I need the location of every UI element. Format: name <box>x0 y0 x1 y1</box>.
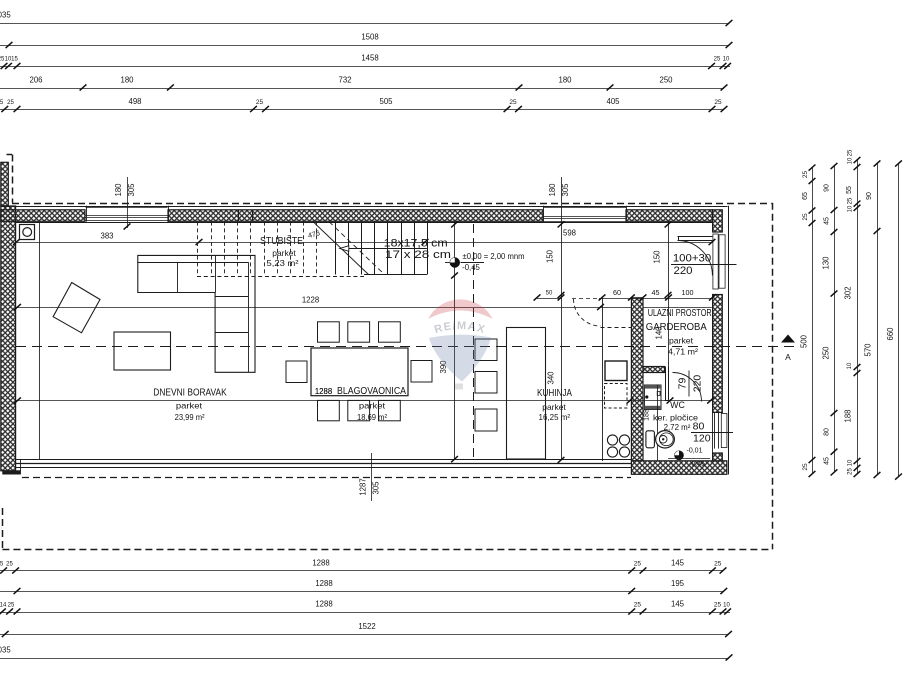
svg-text:15: 15 <box>11 57 18 63</box>
svg-text:250: 250 <box>659 75 673 84</box>
armchair rotated square <box>53 283 100 333</box>
dining chair bottom 3 <box>379 400 401 420</box>
dashed roof outline top <box>12 203 772 205</box>
svg-text:10: 10 <box>847 459 853 466</box>
watermark basket <box>455 384 463 390</box>
cooktop burner 2 <box>619 435 629 445</box>
svg-text:25: 25 <box>802 171 809 179</box>
right dimension chain 2: 90 45 130 250 80 45 <box>834 166 836 472</box>
staircase break line dashed <box>329 222 385 275</box>
right dimension chain 5: overall 660 <box>898 164 900 477</box>
svg-text:ker. pločice: ker. pločice <box>653 412 698 422</box>
svg-text:305: 305 <box>127 183 136 197</box>
sofa back band top <box>138 262 249 264</box>
svg-text:195: 195 <box>671 579 685 588</box>
kitchen island <box>507 328 546 460</box>
svg-text:parket: parket <box>359 402 386 411</box>
dining chair left <box>286 361 307 383</box>
bar stool 2 <box>475 372 497 394</box>
right dimension chain 3: 25/10 55 25/10 302 10 188 10/25 <box>857 160 859 474</box>
svg-text:405: 405 <box>606 97 620 106</box>
svg-text:90: 90 <box>866 192 873 200</box>
svg-text:4,71 m²: 4,71 m² <box>668 347 698 357</box>
window W1 in top wall <box>86 207 168 209</box>
bottom dimension chain: 1522 <box>0 634 729 636</box>
top dimension chain: 5 25 498 25 505 25 405 25 <box>0 109 724 111</box>
svg-text:206: 206 <box>29 75 42 84</box>
WC side line <box>657 385 659 461</box>
dashed cabinet line <box>601 327 632 329</box>
dashed kitchen reference line <box>473 224 475 460</box>
svg-text:-0,01: -0,01 <box>687 448 703 455</box>
staircase lower flight treads <box>335 222 337 275</box>
left exterior wall <box>1 206 16 471</box>
svg-text:45: 45 <box>823 217 830 225</box>
svg-text:10: 10 <box>723 602 730 608</box>
svg-text:2,72 m²: 2,72 m² <box>664 423 691 432</box>
right wall interior face upper segment <box>712 222 714 232</box>
dashed roof outline top-left horizontal stub <box>7 154 13 156</box>
right exterior wall outer face line <box>728 206 730 475</box>
svg-text:17 x 28 cm: 17 x 28 cm <box>385 249 451 261</box>
svg-text:500: 500 <box>799 334 808 348</box>
svg-text:25: 25 <box>802 463 809 471</box>
svg-text:ULAZNI PROSTOR: ULAZNI PROSTOR <box>648 308 712 319</box>
staircase break line solid <box>313 222 369 275</box>
svg-text:1288: 1288 <box>312 558 329 567</box>
svg-text:50: 50 <box>546 290 553 296</box>
left wall bottom cap <box>2 470 20 474</box>
entry door sidelight glazing in right wall <box>713 234 718 289</box>
entry west line 150/140 <box>668 222 670 367</box>
svg-text:150: 150 <box>546 249 555 263</box>
interior dim line 1228 / closet front <box>16 307 631 309</box>
window dim 180/305 rotated, top-left <box>127 177 129 228</box>
cooktop burner 4 <box>619 447 629 457</box>
dashed centre reference line <box>16 346 800 348</box>
WC window in right wall <box>714 412 716 448</box>
svg-text:10: 10 <box>723 57 730 63</box>
entry door swing arc <box>678 241 713 276</box>
svg-text:10: 10 <box>847 205 853 212</box>
top exterior wall hatch segment 3 <box>626 210 712 222</box>
bottom dimension chain: 14/25 1288 25 145 25/10 <box>0 612 730 614</box>
dashed roof outline right <box>772 203 774 550</box>
door dim 79/220 rotated <box>677 371 704 397</box>
gallery edge line left <box>39 222 41 460</box>
right dimension chain 1: 25 65 25 500 25 <box>812 168 814 474</box>
top dimension chain: overall 2035 <box>0 23 729 25</box>
svg-text:1288: 1288 <box>315 579 332 588</box>
interior dim line 50/60/45/100 <box>537 298 561 300</box>
svg-text:60: 60 <box>613 288 621 297</box>
svg-text:150: 150 <box>653 250 662 264</box>
svg-text:188: 188 <box>644 409 651 421</box>
svg-text:25: 25 <box>509 99 517 106</box>
svg-text:598: 598 <box>563 229 576 238</box>
top dimension chain: 1508 <box>0 45 729 47</box>
level marker WC <box>675 451 684 460</box>
svg-text:25: 25 <box>714 57 721 63</box>
svg-text:660: 660 <box>886 327 895 341</box>
svg-text:18x17,5 cm: 18x17,5 cm <box>384 238 448 250</box>
interior dim line 1288 (long room line) <box>16 400 712 402</box>
top exterior wall hatch segment 1 <box>1 210 85 222</box>
dining chair top 1 <box>318 322 340 342</box>
bottom dimension chain: 1288 195 <box>0 591 724 593</box>
svg-text:1287: 1287 <box>359 478 368 495</box>
svg-text:80: 80 <box>823 428 830 436</box>
svg-text:10: 10 <box>847 362 853 369</box>
WC door leaf <box>665 367 667 401</box>
svg-text:220: 220 <box>673 265 692 277</box>
svg-text:180: 180 <box>548 183 557 197</box>
staircase dashed bottom edge <box>197 276 364 278</box>
svg-text:570: 570 <box>863 343 872 357</box>
svg-text:305: 305 <box>372 481 381 495</box>
sofa back band right <box>248 262 250 372</box>
svg-text:parket: parket <box>176 402 203 411</box>
svg-text:25: 25 <box>6 561 13 567</box>
column box with circle (chimney) <box>20 225 35 240</box>
dashed ground line under south glazing <box>22 477 631 479</box>
svg-text:25: 25 <box>802 213 809 221</box>
bottom dimension chain: 5 25 1288 25 145 25 <box>0 570 723 572</box>
glass band west jamb <box>20 459 22 474</box>
svg-text:WC: WC <box>670 400 685 410</box>
dining chair right <box>411 361 432 383</box>
sofa seat seam 2 <box>215 255 217 292</box>
svg-text:1288: 1288 <box>315 599 332 608</box>
entry/WC partition wall stub <box>643 367 665 373</box>
svg-text:25: 25 <box>8 602 15 608</box>
vertical line with window dim 180/305 and 150/340 at kitchen <box>561 177 563 460</box>
svg-text:GARDEROBA: GARDEROBA <box>646 322 707 333</box>
staircase upper flight (dashed) <box>197 222 199 276</box>
svg-text:45: 45 <box>823 457 830 465</box>
svg-text:180: 180 <box>120 75 134 84</box>
washing machine <box>644 385 661 410</box>
svg-text:25: 25 <box>847 468 853 475</box>
interior dim line 383/476/598 <box>16 242 712 244</box>
svg-text:302: 302 <box>843 286 852 299</box>
svg-text:25: 25 <box>847 149 853 156</box>
dashed roof outline bottom-left vertical <box>2 508 4 549</box>
kitchen counter west edge <box>602 298 604 462</box>
top dimension chain: 206 180 732 180 250 <box>0 88 724 90</box>
svg-text:250: 250 <box>821 346 830 360</box>
sofa corner seam <box>215 296 248 298</box>
svg-text:505: 505 <box>379 97 393 106</box>
svg-text:180: 180 <box>558 75 572 84</box>
svg-text:25: 25 <box>714 560 722 567</box>
svg-text:±0,00 = 2,00 mnm: ±0,00 = 2,00 mnm <box>463 252 525 261</box>
svg-text:90: 90 <box>823 184 830 192</box>
level marker main <box>450 258 460 268</box>
watermark balloon red top <box>428 299 493 319</box>
toilet tank <box>646 431 655 448</box>
sofa seat seam 1 <box>177 262 179 292</box>
right dimension chain 4: 90 570 <box>877 164 879 476</box>
dining chair top 3 <box>379 322 401 342</box>
svg-text:-0,45: -0,45 <box>689 461 705 468</box>
svg-text:14: 14 <box>0 602 7 608</box>
top exterior wall outer face line <box>1 206 728 208</box>
kitchen/entry partition wall <box>631 298 643 461</box>
rotated dim 1287/305 at bottom <box>371 453 373 501</box>
kitchen sink <box>605 361 627 381</box>
toilet bowl <box>656 431 675 448</box>
svg-text:-0,45: -0,45 <box>462 263 480 272</box>
top dimension chain: 25/10/15 1458 25/10 <box>0 66 730 68</box>
svg-text:1522: 1522 <box>358 622 375 631</box>
svg-text:1508: 1508 <box>361 33 378 42</box>
bar stool 1 <box>475 339 497 361</box>
dishwasher dashed <box>605 384 628 409</box>
svg-text:25: 25 <box>634 560 642 567</box>
south glass facade lines <box>16 459 631 461</box>
stair direction line with open arrow <box>349 248 427 250</box>
bottom dimension chain: overall 2035 <box>0 658 729 660</box>
left wall stub above plan <box>1 162 9 206</box>
dining chair bottom 2 <box>348 400 370 420</box>
svg-text:55: 55 <box>846 186 853 194</box>
svg-text:DNEVNI BORAVAK: DNEVNI BORAVAK <box>153 388 227 399</box>
svg-text:10: 10 <box>847 157 853 164</box>
svg-text:100: 100 <box>682 288 694 297</box>
svg-text:498: 498 <box>128 97 141 106</box>
watermark balloon blue bottom <box>429 335 491 382</box>
svg-text:A: A <box>785 352 791 362</box>
svg-text:100+30: 100+30 <box>673 253 711 265</box>
svg-text:STUBIŠTE: STUBIŠTE <box>260 234 303 247</box>
svg-text:18,69 m²: 18,69 m² <box>357 412 387 422</box>
dining table <box>311 348 408 396</box>
svg-text:45: 45 <box>652 288 660 297</box>
svg-text:25: 25 <box>714 99 722 106</box>
section marker A <box>781 335 795 343</box>
svg-text:parket: parket <box>542 403 566 412</box>
fridge door dashed swing <box>574 299 601 326</box>
svg-text:130: 130 <box>821 256 830 270</box>
WC door swing arc <box>673 373 702 402</box>
coffee table <box>114 332 171 370</box>
svg-text:1458: 1458 <box>361 54 378 63</box>
svg-text:65: 65 <box>802 192 809 200</box>
svg-text:1228: 1228 <box>302 295 319 304</box>
top wall joint lines <box>238 210 240 222</box>
cooktop burner 3 <box>607 447 617 457</box>
svg-text:parket: parket <box>669 337 694 346</box>
svg-text:KUHINJA: KUHINJA <box>537 388 572 399</box>
svg-text:2035: 2035 <box>0 645 11 654</box>
svg-text:1288: 1288 <box>315 387 332 396</box>
svg-text:145: 145 <box>671 599 685 608</box>
svg-text:383: 383 <box>100 231 113 240</box>
staircase solid bottom edge <box>364 274 427 276</box>
right wall hatch block middle <box>713 295 723 413</box>
right wall hatch block low <box>713 453 723 461</box>
svg-text:parket: parket <box>272 249 296 258</box>
svg-text:25: 25 <box>7 100 14 106</box>
right wall hatch block top <box>713 210 723 232</box>
dashed roof outline top-left vertical <box>12 155 14 203</box>
bar stool 3 <box>475 409 497 431</box>
svg-text:188: 188 <box>843 409 852 422</box>
svg-text:80: 80 <box>693 421 705 433</box>
top wall interior face line <box>16 222 713 224</box>
svg-text:23,99 m²: 23,99 m² <box>175 412 205 422</box>
svg-text:120: 120 <box>693 432 711 444</box>
svg-text:2035: 2035 <box>0 11 11 20</box>
right wall interior face lower segment <box>712 295 714 461</box>
svg-text:25: 25 <box>634 601 642 608</box>
svg-text:25: 25 <box>256 99 264 106</box>
svg-text:5,23 m²: 5,23 m² <box>267 258 299 268</box>
sofa L-shape outline <box>138 255 255 372</box>
svg-text:25: 25 <box>714 601 722 608</box>
svg-text:16,25 m²: 16,25 m² <box>539 412 571 422</box>
svg-text:180: 180 <box>114 183 123 197</box>
dining chair bottom 1 <box>318 400 340 420</box>
watermark RE/MAX arched text <box>427 329 493 337</box>
dining chair top 2 <box>348 322 370 342</box>
svg-text:340: 340 <box>547 371 556 385</box>
dashed roof outline bottom <box>2 549 771 551</box>
svg-text:732: 732 <box>338 75 351 84</box>
svg-text:305: 305 <box>561 183 570 197</box>
svg-text:BLAGOVAONICA: BLAGOVAONICA <box>337 386 406 397</box>
svg-text:145: 145 <box>671 558 685 567</box>
vertical reference line with 390 dim <box>454 222 456 460</box>
svg-text:25: 25 <box>847 197 853 204</box>
svg-text:220: 220 <box>692 375 704 393</box>
bottom wall of WC <box>631 461 727 475</box>
window W2 in top wall <box>543 207 626 209</box>
svg-text:79: 79 <box>677 378 689 390</box>
entry door leaf <box>678 236 713 238</box>
sofa seat seam 3 <box>215 332 248 334</box>
cooktop burner 1 <box>607 435 617 445</box>
top exterior wall hatch segment 2 <box>168 210 543 222</box>
